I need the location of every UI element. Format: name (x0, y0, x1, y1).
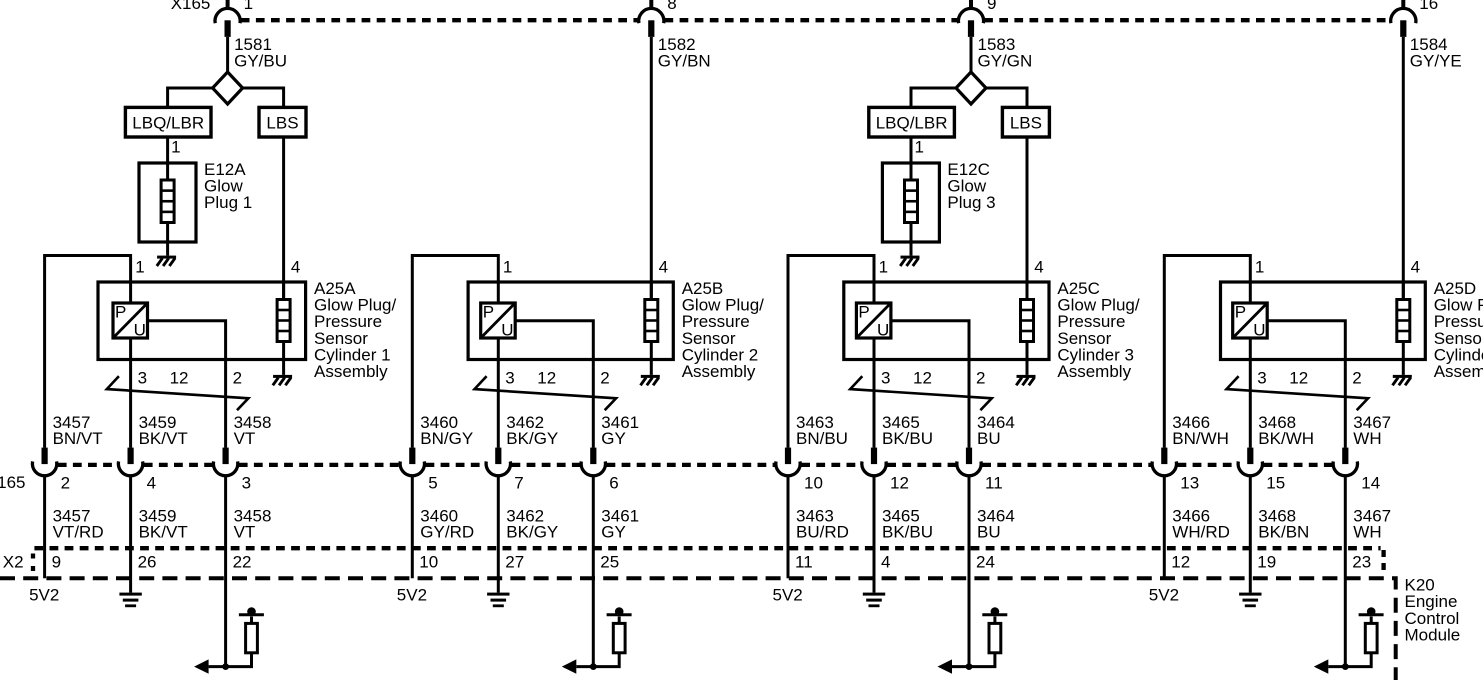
svg-text:Module: Module (1405, 625, 1461, 644)
svg-text:WH: WH (1353, 429, 1381, 448)
svg-text:GY/BN: GY/BN (658, 51, 711, 70)
wire 3467 WH label (upper) (1353, 413, 1391, 448)
connector X165 pin 6 (terminal+socket) (581, 448, 605, 476)
glow plug E12A heater element (161, 163, 174, 256)
svg-text:GY/RD: GY/RD (420, 523, 474, 542)
svg-text:2: 2 (1352, 369, 1361, 388)
pin 3 wire (P/U to connector) (873, 338, 876, 448)
svg-text:GY: GY (601, 429, 626, 448)
pin 1 wire (connector to A25A) (45, 256, 131, 448)
svg-text:2: 2 (600, 369, 609, 388)
svg-text:19: 19 (1257, 553, 1276, 572)
wire 3458 VT label (upper) (234, 413, 272, 448)
junction node dot (222, 663, 229, 670)
svg-text:Assembly: Assembly (314, 362, 388, 381)
wire 3459 BK/VT (X165 to K20) (129, 476, 132, 592)
junction node dot (1342, 663, 1349, 670)
heater element inside A25A (277, 282, 290, 375)
svg-text:4: 4 (291, 258, 300, 277)
pin 2 wire (P/U output to connector) (891, 321, 969, 448)
svg-text:GY/YE: GY/YE (1410, 51, 1462, 70)
svg-text:BK/VT: BK/VT (139, 429, 188, 448)
pin 2 wire (P/U output to connector) (1267, 321, 1345, 448)
wire 1583 GY/GN label (978, 35, 1033, 70)
wire 3464 BU (X165 to K20) (968, 476, 971, 666)
svg-text:10: 10 (419, 553, 438, 572)
svg-text:BK/GY: BK/GY (506, 523, 558, 542)
pull-up resistor R3 (989, 623, 1001, 652)
pin 1 wire (connector to A25B) (412, 256, 498, 448)
svg-text:X165: X165 (171, 0, 211, 13)
svg-text:BN/WH: BN/WH (1172, 429, 1229, 448)
wire splice to fuse LBS (243, 88, 284, 108)
svg-text:14: 14 (1361, 473, 1380, 492)
internal pull-up supply bar with node dot (607, 607, 632, 623)
wire 3457 VT/RD (X165 to K20) (43, 476, 46, 578)
svg-text:12: 12 (1171, 553, 1190, 572)
connector X165 pin 12 (terminal+socket) (862, 448, 886, 476)
svg-text:VT/RD: VT/RD (53, 523, 104, 542)
ground (chassis) below A25C (1016, 375, 1035, 385)
svg-text:U: U (877, 321, 889, 340)
twisted pair symbol 12 (107, 376, 249, 410)
wire 3463 BU/RD label (lower) (796, 506, 849, 541)
svg-text:BK/GY: BK/GY (506, 429, 558, 448)
svg-text:LBS: LBS (1010, 113, 1042, 132)
connector X165 pin 11 (terminal+socket) (957, 448, 981, 476)
svg-text:1: 1 (171, 138, 180, 157)
resistor lower leg wire (576, 653, 619, 667)
svg-text:1: 1 (503, 258, 512, 277)
wire LBS to A25C pin 4 (1026, 137, 1029, 300)
svg-text:4: 4 (881, 553, 890, 572)
pressure sensor P/U box in A25A (113, 303, 148, 340)
svg-text:Plug 3: Plug 3 (947, 193, 995, 212)
wire 3464 BU label (upper) (977, 413, 1015, 448)
signal arrow to ECM logic (938, 659, 953, 673)
connector X165 pin 10 (terminal+socket) (776, 448, 800, 476)
svg-text:BK/BN: BK/BN (1258, 523, 1309, 542)
wire 3461 GY label (lower) (601, 506, 639, 541)
svg-text:2: 2 (233, 369, 242, 388)
svg-text:GY/BU: GY/BU (234, 51, 287, 70)
svg-text:U: U (1253, 321, 1265, 340)
wire 3466 WH/RD label (lower) (1172, 506, 1230, 541)
wire 3468 BK/BN label (lower) (1258, 506, 1309, 541)
resistor lower leg wire (209, 653, 252, 667)
svg-text:Assembly: Assembly (1057, 362, 1131, 381)
svg-text:1: 1 (135, 258, 144, 277)
splice diamond S3 (956, 72, 986, 104)
signal arrow to ECM logic (1314, 659, 1329, 673)
svg-text:5V2: 5V2 (1149, 586, 1179, 605)
wire 3460 BN/GY label (upper) (420, 413, 473, 448)
svg-text:3: 3 (138, 369, 147, 388)
svg-text:Plug 1: Plug 1 (204, 193, 252, 212)
svg-text:BU: BU (977, 429, 1001, 448)
svg-text:LBQ/LBR: LBQ/LBR (132, 113, 204, 132)
twisted pair symbol 12 (850, 376, 992, 410)
wire LBQ/LBR to glow plug E12A (166, 137, 169, 163)
ground (IEC) inside K20 (1239, 593, 1261, 608)
connector X165 module side (lower dashed line) (58, 463, 1332, 467)
svg-text:3: 3 (1257, 369, 1266, 388)
svg-text:12: 12 (913, 369, 932, 388)
wire 3457 BN/VT label (upper) (53, 413, 103, 448)
connector X165 pin 5 (terminal+socket) (400, 448, 424, 476)
svg-text:1: 1 (244, 0, 253, 13)
module K20 boundary (dashed line) (0, 578, 1396, 680)
svg-text:5V2: 5V2 (397, 586, 427, 605)
svg-text:BU/RD: BU/RD (796, 523, 849, 542)
svg-text:3: 3 (881, 369, 890, 388)
connector X165 pin 9 (top row socket+terminal) (958, 0, 983, 37)
connector X165 pin 14 (terminal+socket) (1333, 448, 1357, 476)
svg-text:3: 3 (505, 369, 514, 388)
pin 1 wire (connector to A25D) (1164, 256, 1250, 448)
wire splice to fuse LBQ/LBR (168, 88, 213, 108)
label E12C Glow Plug 3 (947, 160, 995, 212)
ground (chassis) below A25D (1393, 375, 1412, 385)
svg-text:BK/BU: BK/BU (882, 429, 933, 448)
svg-text:10: 10 (804, 473, 823, 492)
signal arrow to ECM logic (194, 659, 209, 673)
ground (IEC) inside K20 (863, 593, 885, 608)
wire LBS to A25A pin 4 (282, 137, 285, 300)
fuse box LBQ/LBR (869, 107, 955, 137)
svg-text:7: 7 (514, 473, 523, 492)
ground (chassis) below E12A (157, 256, 176, 266)
svg-text:165: 165 (0, 473, 25, 492)
label A25C Glow Plug/Pressure Sensor Cylinder 3 Assembly (1057, 279, 1139, 381)
svg-text:VT: VT (234, 429, 256, 448)
internal pull-up supply bar with node dot (239, 607, 264, 623)
wire 3467 WH (X165 to K20) (1344, 476, 1347, 666)
svg-text:BK/BU: BK/BU (882, 523, 933, 542)
svg-text:2: 2 (61, 473, 70, 492)
svg-text:Assembly: Assembly (1434, 362, 1483, 381)
connector X165 pin 4 (terminal+socket) (118, 448, 142, 476)
svg-text:P: P (1235, 303, 1246, 322)
resistor lower leg wire (1328, 653, 1371, 667)
svg-text:16: 16 (1419, 0, 1438, 13)
connector X165 harness side (top dashed line) (241, 18, 1390, 22)
svg-text:BN/GY: BN/GY (420, 429, 473, 448)
wire 3463 BN/BU label (upper) (796, 413, 848, 448)
label A25D Glow Plug/Pressure Sensor Cylinder 4 Assembly (1434, 279, 1483, 381)
wire 1583 (pin 9 to splice) (970, 37, 973, 73)
wire 3460 GY/RD (X165 to K20) (411, 476, 414, 578)
connector X2 boundary (dotted line) (33, 548, 1384, 576)
junction node dot (966, 663, 973, 670)
svg-text:6: 6 (609, 473, 618, 492)
heater element inside A25C (1021, 282, 1034, 375)
signal arrow to ECM logic (562, 659, 577, 673)
svg-text:5V2: 5V2 (29, 586, 59, 605)
wire 3459 BK/VT label (upper) (139, 413, 188, 448)
pin 3 wire (P/U to connector) (497, 338, 500, 448)
svg-text:GY: GY (601, 523, 626, 542)
svg-text:15: 15 (1266, 473, 1285, 492)
wire 3461 GY label (upper) (601, 413, 639, 448)
wire splice to fuse LBQ/LBR (911, 88, 956, 108)
wire splice to fuse LBS (986, 88, 1027, 108)
svg-text:2: 2 (976, 369, 985, 388)
wire 1584 GY/YE label (1410, 35, 1462, 70)
twisted pair symbol 12 (1227, 376, 1369, 410)
wire 3462 BK/GY label (lower) (506, 506, 558, 541)
connector X165 pin 15 (terminal+socket) (1238, 448, 1262, 476)
pressure sensor P/U box in A25C (856, 303, 891, 340)
label E12A Glow Plug 1 (204, 160, 252, 212)
svg-text:LBQ/LBR: LBQ/LBR (876, 113, 948, 132)
svg-text:P: P (483, 303, 494, 322)
connector X165 pin 13 (terminal+socket) (1152, 448, 1176, 476)
heater element inside A25B (645, 282, 658, 375)
pressure sensor P/U box in A25B (481, 303, 516, 340)
wire 3458 VT label (lower) (234, 506, 272, 541)
svg-text:27: 27 (505, 553, 524, 572)
pressure sensor P/U box in A25D (1233, 303, 1268, 340)
glow plug E12A box (139, 163, 196, 242)
svg-text:8: 8 (667, 0, 676, 13)
svg-text:U: U (501, 321, 513, 340)
wire 1582 GY/BN label (658, 35, 711, 70)
wire 3466 BN/WH label (upper) (1172, 413, 1229, 448)
svg-text:BK/VT: BK/VT (139, 523, 188, 542)
pin 2 wire (P/U output to connector) (148, 321, 226, 448)
assembly A25B box (468, 282, 673, 360)
svg-text:1: 1 (879, 258, 888, 277)
connector X165 pin 16 (top row socket+terminal) (1391, 0, 1416, 37)
ground (chassis) below A25B (641, 375, 660, 385)
pin 2 wire (P/U output to connector) (515, 321, 593, 448)
svg-text:9: 9 (52, 553, 61, 572)
wire 3464 BU label (lower) (977, 506, 1015, 541)
svg-text:WH/RD: WH/RD (1172, 523, 1230, 542)
svg-text:LBS: LBS (266, 113, 298, 132)
ground (chassis) below A25A (273, 375, 292, 385)
connector X165 pin 2 (terminal+socket) (32, 448, 56, 476)
svg-text:4: 4 (147, 473, 156, 492)
svg-text:13: 13 (1180, 473, 1199, 492)
wire 3461 GY (X165 to K20) (592, 476, 595, 666)
wire 3459 BK/VT label (lower) (139, 506, 188, 541)
svg-text:26: 26 (138, 553, 157, 572)
wire 3462 BK/GY (X165 to K20) (497, 476, 500, 592)
wire 3462 BK/GY label (upper) (506, 413, 558, 448)
svg-text:11: 11 (985, 473, 1003, 492)
assembly A25C box (844, 282, 1049, 360)
pin 3 wire (P/U to connector) (1249, 338, 1252, 448)
pin 3 wire (P/U to connector) (129, 338, 132, 448)
svg-text:22: 22 (233, 553, 252, 572)
svg-text:25: 25 (600, 553, 619, 572)
connector X165 pin 7 (terminal+socket) (486, 448, 510, 476)
label A25A Glow Plug/Pressure Sensor Cylinder 1 Assembly (314, 279, 396, 381)
svg-text:24: 24 (976, 553, 995, 572)
pin 1 wire (connector to A25C) (788, 256, 874, 448)
internal pull-up supply bar with node dot (1359, 607, 1384, 623)
junction node dot (590, 663, 597, 670)
wire 1581 GY/BU label (234, 35, 287, 70)
svg-text:5: 5 (428, 473, 437, 492)
splice diamond S1 (213, 72, 243, 104)
assembly A25A box (98, 282, 306, 360)
svg-text:Assembly: Assembly (682, 362, 756, 381)
svg-text:12: 12 (537, 369, 556, 388)
fuse box LBS (1002, 107, 1049, 137)
connector X165 pin 8 (top row socket+terminal) (639, 0, 664, 37)
connector X165 pin 3 (terminal+socket) (213, 448, 237, 476)
heater element inside A25D (1397, 282, 1410, 375)
wire 3465 BK/BU label (upper) (882, 413, 933, 448)
wire 3458 VT (X165 to K20) (224, 476, 227, 666)
svg-text:12: 12 (1289, 369, 1308, 388)
svg-text:BK/WH: BK/WH (1258, 429, 1314, 448)
svg-text:4: 4 (659, 258, 668, 277)
resistor lower leg wire (952, 653, 995, 667)
fuse box LBQ/LBR (125, 107, 211, 137)
svg-text:12: 12 (170, 369, 189, 388)
svg-text:1: 1 (915, 138, 924, 157)
glow plug E12C box (882, 163, 939, 242)
svg-text:4: 4 (1034, 258, 1043, 277)
wire 3460 GY/RD label (lower) (420, 506, 474, 541)
svg-text:9: 9 (987, 0, 996, 13)
svg-text:4: 4 (1411, 258, 1420, 277)
label K20 Engine Control Module (1405, 576, 1461, 645)
svg-text:U: U (134, 321, 146, 340)
svg-text:BU: BU (977, 523, 1001, 542)
wire 3463 BU/RD (X165 to K20) (787, 476, 790, 578)
svg-text:1: 1 (1255, 258, 1264, 277)
wire 3467 WH label (lower) (1353, 506, 1391, 541)
svg-text:5V2: 5V2 (773, 586, 803, 605)
wire 3465 BK/BU (X165 to K20) (873, 476, 876, 592)
wire 3468 BK/BN (X165 to K20) (1249, 476, 1252, 592)
internal pull-up supply bar with node dot (982, 607, 1007, 623)
wire 3465 BK/BU label (lower) (882, 506, 933, 541)
pull-up resistor R2 (613, 623, 625, 652)
wire 1582 (pin 8 to A25B pin 4) (650, 37, 653, 300)
twisted pair symbol 12 (475, 376, 617, 410)
wire 3466 WH/RD (X165 to K20) (1163, 476, 1166, 578)
assembly A25D box (1221, 282, 1426, 360)
svg-text:3: 3 (242, 473, 251, 492)
ground (IEC) inside K20 (119, 593, 141, 608)
wire 1584 (pin 16 to A25D pin 4) (1402, 37, 1405, 300)
wire 3468 BK/WH label (upper) (1258, 413, 1314, 448)
svg-text:VT: VT (234, 523, 256, 542)
svg-text:12: 12 (890, 473, 909, 492)
svg-text:23: 23 (1352, 553, 1371, 572)
wire 3457 VT/RD label (lower) (53, 506, 104, 541)
svg-text:GY/GN: GY/GN (978, 51, 1033, 70)
pull-up resistor R4 (1365, 623, 1377, 652)
connector X165 pin 1 (top row socket+terminal) (215, 0, 240, 37)
fuse box LBS (259, 107, 306, 137)
svg-text:P: P (858, 303, 869, 322)
label A25B Glow Plug/Pressure Sensor Cylinder 2 Assembly (682, 279, 764, 381)
wire 1581 (pin 1 to splice) (226, 37, 229, 73)
svg-text:BN/VT: BN/VT (53, 429, 103, 448)
svg-text:11: 11 (795, 553, 813, 572)
ground (chassis) below E12C (900, 256, 919, 266)
wire LBQ/LBR to glow plug E12C (910, 137, 913, 163)
glow plug E12C heater element (905, 163, 918, 256)
svg-text:WH: WH (1353, 523, 1381, 542)
svg-text:BN/BU: BN/BU (796, 429, 848, 448)
svg-text:P: P (115, 303, 126, 322)
svg-text:X2: X2 (3, 553, 24, 572)
pull-up resistor R1 (246, 623, 258, 652)
ground (IEC) inside K20 (487, 593, 509, 608)
